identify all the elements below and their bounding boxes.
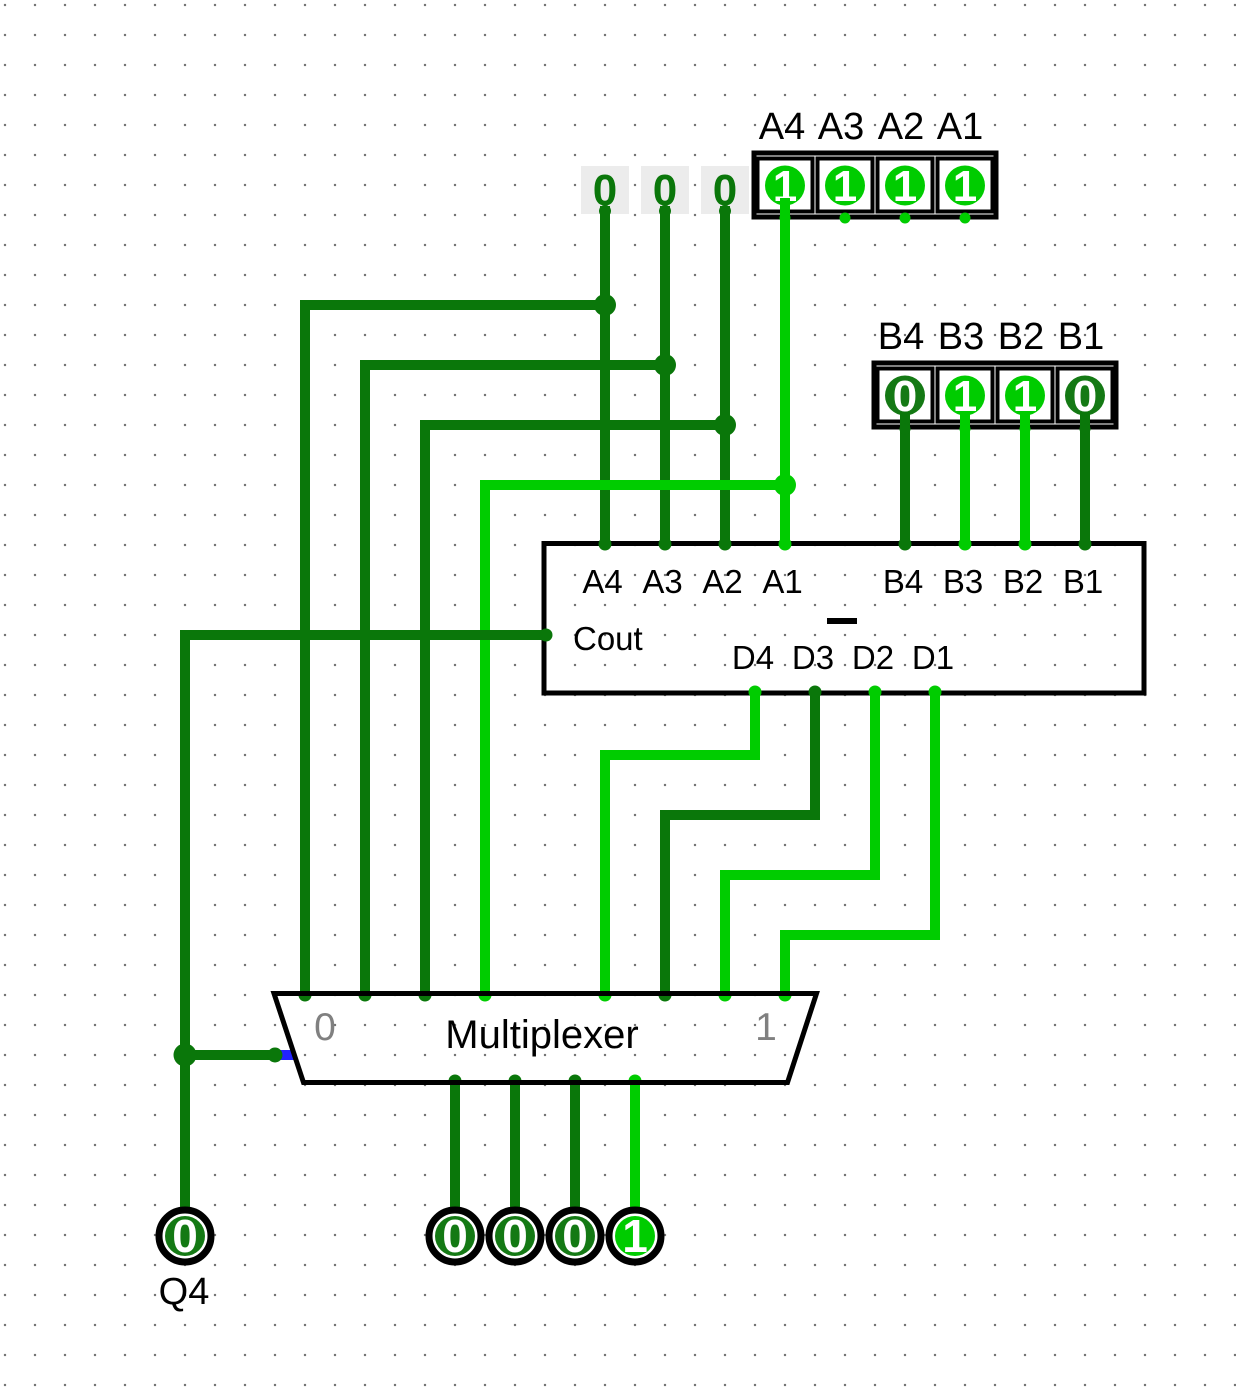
wire D3 across bbox=[660, 810, 815, 820]
port dot subtractor bottom x935 bbox=[929, 686, 942, 699]
port dot pin A x905 bbox=[900, 213, 911, 224]
svg-text:D3: D3 bbox=[792, 639, 834, 676]
port dot subtractor top x725 bbox=[719, 538, 732, 551]
wire Cout across bbox=[185, 630, 548, 640]
input pin B3 value disk 1 bbox=[945, 376, 985, 416]
wire probe2 to subtractor A3 bbox=[660, 206, 670, 545]
port dot mux top x365 bbox=[359, 989, 372, 1002]
input pin group A outer box bbox=[754, 153, 996, 217]
port dot probe x605 bbox=[599, 205, 611, 217]
wire pin B2 to subtractor B2 bbox=[1020, 412, 1030, 545]
input pin group B outer box bbox=[874, 363, 1116, 427]
wire mux out4 bbox=[630, 1081, 640, 1211]
input pin A1 cell bbox=[938, 159, 993, 212]
wire mux out3 bbox=[570, 1081, 580, 1211]
port dot pin B x1085 bbox=[1080, 424, 1091, 435]
endpoint dot select wire bbox=[268, 1048, 283, 1063]
port dot mux bottom x635 bbox=[629, 1075, 642, 1088]
wire pin A4 to subtractor A1 bbox=[780, 198, 790, 545]
wire Cout to mux select bbox=[185, 1050, 275, 1060]
port dot mux top x305 bbox=[299, 989, 312, 1002]
input pin A2 value disk 1 bbox=[885, 166, 925, 206]
output pin out3 value disk 0 bbox=[555, 1216, 595, 1256]
multiplexer body bbox=[274, 994, 817, 1083]
port dot subtractor top x905 bbox=[899, 538, 912, 551]
wire pin B4 to subtractor B4 bbox=[900, 412, 910, 545]
wire branch y305 to mux in0a bbox=[300, 300, 605, 310]
wire mux in0c drop bbox=[420, 420, 430, 995]
wire D1 across bbox=[780, 930, 935, 940]
output pin out1 value disk 0 bbox=[435, 1216, 475, 1256]
svg-text:B1: B1 bbox=[1058, 316, 1104, 358]
input pin A3 cell bbox=[818, 159, 873, 212]
svg-text:1: 1 bbox=[953, 162, 977, 211]
junction at probe2 branch bbox=[654, 354, 676, 376]
wire D1 to mux in1d bbox=[780, 930, 790, 995]
probe P1 body bbox=[581, 166, 629, 214]
svg-text:1: 1 bbox=[893, 162, 917, 211]
svg-text:0: 0 bbox=[442, 1210, 468, 1262]
wire D2 drop bbox=[870, 691, 880, 880]
port dot subtractor top x665 bbox=[659, 538, 672, 551]
output pin Q4 value disk 0 bbox=[165, 1216, 205, 1256]
output pin out4 value disk 1 bbox=[615, 1216, 655, 1256]
junction at probe1 branch bbox=[594, 294, 616, 316]
svg-text:B3: B3 bbox=[943, 563, 983, 600]
wire D4 drop bbox=[750, 691, 760, 760]
svg-text:B4: B4 bbox=[883, 563, 923, 600]
svg-text:0: 0 bbox=[314, 1006, 336, 1049]
wire Cout down to Q4 bbox=[180, 630, 190, 1211]
wire probe3 to subtractor A2 bbox=[720, 206, 730, 545]
port dot mux top x485 bbox=[479, 989, 492, 1002]
port dot subtractor Cout bbox=[540, 629, 553, 642]
svg-text:A4: A4 bbox=[582, 563, 622, 600]
port dot mux top x725 bbox=[719, 989, 732, 1002]
port dot mux top x425 bbox=[419, 989, 432, 1002]
wire mux select stub (floating, blue) bbox=[276, 1050, 295, 1060]
input pin B4 value disk 0 bbox=[885, 376, 925, 416]
output pin out3 ring bbox=[549, 1210, 601, 1262]
port dot mux bottom x575 bbox=[569, 1075, 582, 1088]
output pin out1 ring bbox=[429, 1210, 481, 1262]
input pin A1 value disk 1 bbox=[945, 166, 985, 206]
wire mux in0b drop bbox=[360, 360, 370, 995]
port dot mux top x665 bbox=[659, 989, 672, 1002]
svg-text:D2: D2 bbox=[852, 639, 894, 676]
probe P2 body bbox=[641, 166, 689, 214]
wire branch y485 to mux in0d bbox=[480, 480, 785, 490]
port dot mux top x605 bbox=[599, 989, 612, 1002]
port dot subtractor top x965 bbox=[959, 538, 972, 551]
svg-text:1: 1 bbox=[755, 1006, 777, 1049]
wire branch y365 to mux in0b bbox=[360, 360, 665, 370]
wire mux in0a drop bbox=[300, 300, 310, 995]
port dot pin A x845 bbox=[840, 213, 851, 224]
svg-text:Cout: Cout bbox=[573, 620, 643, 657]
svg-text:0: 0 bbox=[172, 1210, 198, 1262]
svg-text:Q4: Q4 bbox=[159, 1271, 210, 1313]
input pin A3 value disk 1 bbox=[825, 166, 865, 206]
input pin A4 cell bbox=[758, 159, 813, 212]
port dot pin B x965 bbox=[960, 424, 971, 435]
probe P3 body bbox=[701, 166, 749, 214]
junction at probe3 branch bbox=[714, 414, 736, 436]
svg-text:0: 0 bbox=[562, 1210, 588, 1262]
port dot mux bottom x515 bbox=[509, 1075, 522, 1088]
subtractor minus symbol bbox=[827, 618, 857, 624]
wire D2 to mux in1c bbox=[720, 870, 730, 995]
svg-text:A3: A3 bbox=[642, 563, 682, 600]
junction at Cout/select/Q4 bbox=[174, 1044, 197, 1067]
wire D2 across bbox=[720, 870, 875, 880]
port dot mux bottom x455 bbox=[449, 1075, 462, 1088]
input pin A2 cell bbox=[878, 159, 933, 212]
wire mux out2 bbox=[510, 1081, 520, 1211]
svg-text:B2: B2 bbox=[1003, 563, 1043, 600]
port dot pin A x785 bbox=[780, 213, 791, 224]
port dot subtractor top x1025 bbox=[1019, 538, 1032, 551]
input pin B1 cell bbox=[1058, 369, 1113, 422]
wire pin B1 to subtractor B1 bbox=[1080, 412, 1090, 545]
svg-text:D1: D1 bbox=[912, 639, 954, 676]
port dot pin B x1025 bbox=[1020, 424, 1031, 435]
svg-text:A1: A1 bbox=[937, 106, 983, 148]
subtractor U1 body bbox=[544, 544, 1144, 694]
wire mux in0d drop bbox=[480, 480, 490, 995]
port dot probe x725 bbox=[719, 205, 731, 217]
port dot subtractor top x605 bbox=[599, 538, 612, 551]
port dot subtractor top x1085 bbox=[1079, 538, 1092, 551]
input pin A4 value disk 1 bbox=[765, 166, 805, 206]
wire D3 drop bbox=[810, 691, 820, 820]
svg-text:B1: B1 bbox=[1063, 563, 1103, 600]
input pin B2 cell bbox=[998, 369, 1053, 422]
port dot subtractor top x785 bbox=[779, 538, 792, 551]
svg-text:A1: A1 bbox=[762, 563, 802, 600]
input pin B2 value disk 1 bbox=[1005, 376, 1045, 416]
port dot pin B x905 bbox=[900, 424, 911, 435]
wire mux out1 bbox=[450, 1081, 460, 1211]
svg-text:A4: A4 bbox=[759, 106, 805, 148]
output pin out4 ring bbox=[609, 1210, 661, 1262]
output pin out2 ring bbox=[489, 1210, 541, 1262]
svg-text:A2: A2 bbox=[878, 106, 924, 148]
wire D3 to mux in1b bbox=[660, 810, 670, 995]
svg-text:0: 0 bbox=[502, 1210, 528, 1262]
port dot probe x665 bbox=[659, 205, 671, 217]
port dot mux top x785 bbox=[779, 989, 792, 1002]
port dot subtractor bottom x755 bbox=[749, 686, 762, 699]
svg-text:Multiplexer: Multiplexer bbox=[445, 1013, 638, 1057]
wire D4 across bbox=[600, 750, 755, 760]
input pin B3 cell bbox=[938, 369, 993, 422]
svg-text:A2: A2 bbox=[702, 563, 742, 600]
output pin Q4 ring bbox=[159, 1210, 211, 1262]
port dot subtractor bottom x875 bbox=[869, 686, 882, 699]
input pin B4 cell bbox=[878, 369, 933, 422]
input pin B1 value disk 0 bbox=[1065, 376, 1105, 416]
port dot pin A x965 bbox=[960, 213, 971, 224]
wire branch y425 to mux in0c bbox=[420, 420, 725, 430]
output pin out2 value disk 0 bbox=[495, 1216, 535, 1256]
svg-text:A3: A3 bbox=[818, 106, 864, 148]
wire pin B3 to subtractor B3 bbox=[960, 412, 970, 545]
wire probe1 to subtractor A4 bbox=[600, 206, 610, 545]
svg-text:D4: D4 bbox=[732, 639, 774, 676]
svg-text:B4: B4 bbox=[878, 316, 924, 358]
wire D1 drop bbox=[930, 691, 940, 940]
svg-text:B3: B3 bbox=[938, 316, 984, 358]
svg-text:1: 1 bbox=[833, 162, 857, 211]
port dot subtractor bottom x815 bbox=[809, 686, 822, 699]
svg-text:B2: B2 bbox=[998, 316, 1044, 358]
wire D4 to mux in1a bbox=[600, 750, 610, 995]
junction at A4 branch bbox=[774, 474, 796, 496]
svg-text:1: 1 bbox=[622, 1210, 648, 1262]
